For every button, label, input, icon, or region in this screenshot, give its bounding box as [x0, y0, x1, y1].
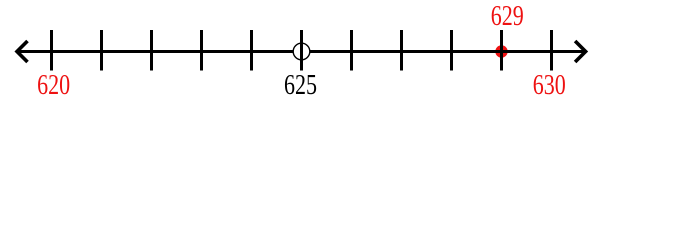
tick 626 — [350, 30, 353, 71]
tick 628 — [450, 30, 453, 71]
tick 622 — [150, 30, 153, 71]
number line main wire — [17, 50, 586, 53]
tick 627 — [400, 30, 403, 71]
svg-text:630: 630 — [533, 70, 566, 100]
tick 620 — [50, 30, 53, 71]
svg-text:629: 629 — [491, 1, 524, 32]
tick 621 — [100, 30, 103, 71]
svg-text:620: 620 — [37, 70, 70, 100]
tick 629 — [500, 30, 503, 71]
tick 624 — [250, 30, 253, 71]
open circle marker at 625 — [293, 43, 310, 60]
tick 625 (over circle) — [300, 30, 303, 71]
tick 623 — [200, 30, 203, 71]
svg-text:625: 625 — [284, 70, 317, 100]
left arrowhead — [17, 41, 28, 62]
right arrowhead — [575, 41, 586, 62]
tick 630 — [550, 30, 553, 71]
red point at 629 — [495, 45, 507, 57]
